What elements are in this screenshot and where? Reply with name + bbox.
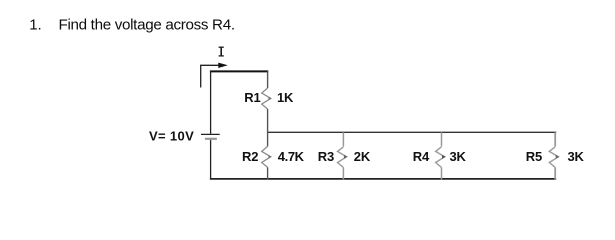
svg-text:1K: 1K [277, 90, 294, 105]
svg-text:1.: 1. [29, 16, 41, 33]
svg-text:Find the voltage across R4.: Find the voltage across R4. [59, 16, 235, 33]
svg-text:2K: 2K [354, 149, 371, 164]
svg-text:3K: 3K [568, 149, 585, 164]
svg-text:3K: 3K [450, 149, 467, 164]
svg-text:R4: R4 [413, 149, 430, 164]
svg-text:V= 10V: V= 10V [149, 129, 194, 144]
svg-text:R1: R1 [244, 90, 260, 105]
svg-text:R5: R5 [526, 149, 542, 164]
svg-text:R2: R2 [242, 149, 258, 164]
svg-text:4.7K: 4.7K [278, 149, 305, 164]
svg-text:R3: R3 [318, 149, 334, 164]
